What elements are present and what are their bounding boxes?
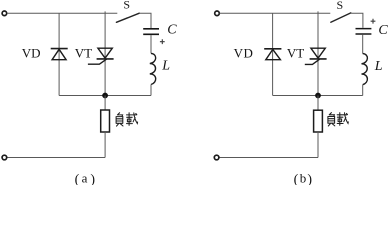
svg-text:VT: VT bbox=[287, 45, 304, 60]
capacitor C plates (b) bbox=[356, 29, 372, 34]
switch S (a) blade bbox=[116, 13, 139, 22]
wire switch to capacitor (a) bbox=[139, 13, 151, 28]
VT branch wire (a) bbox=[104, 11, 106, 95]
inductor L coil (b) bbox=[362, 54, 368, 85]
wire bottom bus (b) bbox=[219, 157, 318, 159]
wire node to load (b) bbox=[317, 96, 319, 111]
svg-text:b: b bbox=[300, 171, 307, 185]
inductor L coil (a) bbox=[150, 53, 156, 84]
svg-text:a: a bbox=[82, 171, 88, 185]
svg-text:VD: VD bbox=[234, 45, 254, 60]
terminal bottom-left (b) bbox=[214, 155, 219, 160]
capacitor C plates (a) bbox=[143, 29, 159, 35]
svg-text:(: ( bbox=[294, 172, 299, 185]
svg-text:S: S bbox=[337, 0, 344, 12]
bus wire bottom of VD/VT/L (a) bbox=[59, 95, 151, 97]
junction node dot (b) bbox=[315, 93, 321, 99]
VD branch wire (a) bbox=[58, 13, 60, 95]
load label 负载 (b) bbox=[328, 113, 348, 126]
load resistor box (a) bbox=[101, 110, 110, 132]
svg-text:(: ( bbox=[75, 172, 80, 185]
svg-text:): ) bbox=[307, 172, 312, 185]
wire top bus (b) bbox=[220, 12, 331, 14]
svg-text:S: S bbox=[123, 0, 130, 12]
svg-text:): ) bbox=[90, 172, 95, 185]
VD branch wire (b) bbox=[272, 13, 274, 95]
svg-text:C: C bbox=[167, 23, 177, 38]
wire inductor to bottom node (b) bbox=[362, 85, 364, 96]
terminal top-left (b) bbox=[215, 11, 220, 16]
terminal bottom-left (a) bbox=[2, 155, 7, 160]
caption (a) bbox=[75, 171, 96, 188]
svg-text:VT: VT bbox=[75, 45, 92, 60]
svg-text:C: C bbox=[378, 23, 388, 38]
wire load to bottom bus (b) bbox=[317, 132, 319, 158]
load resistor box (b) bbox=[314, 110, 323, 132]
wire switch to capacitor (b) bbox=[351, 13, 363, 28]
wire top bus (a) bbox=[7, 12, 117, 14]
terminal top-left (a) bbox=[2, 11, 7, 16]
caption (b) bbox=[294, 171, 313, 188]
load label 负载 (a) bbox=[116, 113, 138, 126]
bus wire bottom of VD/VT/L (b) bbox=[273, 95, 363, 97]
polarity + (a) bbox=[160, 39, 165, 44]
svg-text:L: L bbox=[374, 59, 383, 74]
thyristor VT (b) bbox=[305, 48, 327, 64]
polarity + (b) bbox=[371, 19, 376, 24]
thyristor VT (a) bbox=[88, 48, 114, 64]
wire load to bottom bus (a) bbox=[104, 132, 106, 158]
wire node to load (a) bbox=[104, 96, 106, 111]
switch S (b) blade bbox=[331, 13, 351, 22]
wire bottom bus (a) bbox=[7, 157, 105, 159]
svg-text:L: L bbox=[161, 59, 170, 74]
junction node dot (a) bbox=[102, 93, 108, 99]
diode VD (b) bbox=[264, 49, 281, 60]
svg-text:VD: VD bbox=[22, 45, 41, 60]
VT branch wire (b) bbox=[317, 11, 319, 95]
wire capacitor to inductor (b) bbox=[362, 35, 364, 54]
wire inductor to bottom node (a) bbox=[150, 85, 152, 96]
wire capacitor to inductor (a) bbox=[150, 35, 152, 53]
diode VD (a) bbox=[51, 49, 68, 60]
